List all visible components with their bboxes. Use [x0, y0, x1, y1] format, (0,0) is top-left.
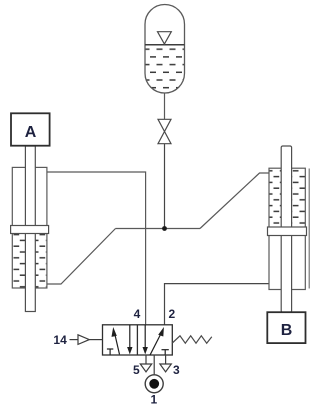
svg-text:1: 1 [151, 393, 158, 407]
svg-text:3: 3 [173, 363, 180, 377]
svg-text:A: A [25, 124, 37, 141]
svg-text:2: 2 [169, 307, 176, 321]
svg-text:14: 14 [53, 333, 67, 347]
svg-text:5: 5 [133, 363, 140, 377]
svg-text:B: B [281, 322, 293, 339]
svg-text:4: 4 [134, 307, 141, 321]
